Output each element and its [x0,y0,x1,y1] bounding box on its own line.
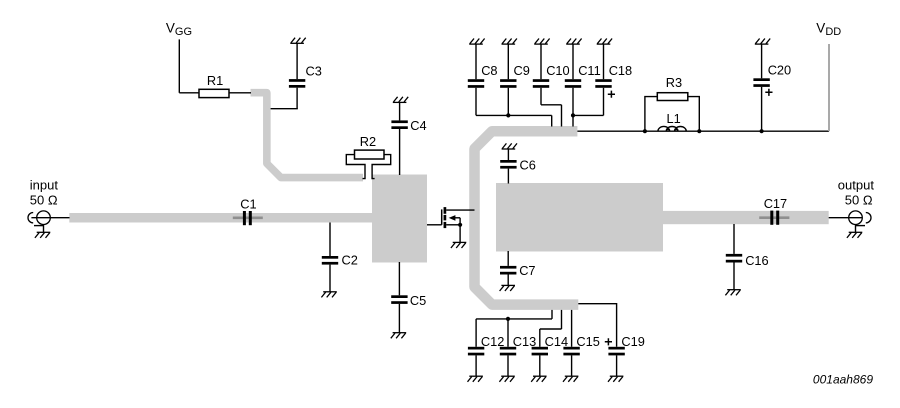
svg-text:R1: R1 [207,73,223,88]
svg-text:C17: C17 [764,196,787,211]
svg-text:001aah869: 001aah869 [813,373,873,387]
svg-text:C3: C3 [306,63,322,78]
svg-text:input: input [30,178,59,193]
svg-text:C5: C5 [410,293,426,308]
svg-text:R3: R3 [666,75,682,90]
svg-text:C16: C16 [745,253,768,268]
svg-text:C13: C13 [513,334,536,349]
svg-text:C6: C6 [520,157,536,172]
svg-text:R2: R2 [360,134,376,149]
svg-text:C10: C10 [546,63,569,78]
svg-text:C14: C14 [545,334,568,349]
svg-text:C2: C2 [342,252,358,267]
svg-text:L1: L1 [667,111,681,126]
svg-text:C11: C11 [578,63,601,78]
svg-text:C20: C20 [768,63,791,78]
svg-text:50 Ω: 50 Ω [845,193,873,208]
svg-text:C19: C19 [621,334,644,349]
svg-text:C12: C12 [481,334,504,349]
svg-text:50 Ω: 50 Ω [30,193,58,208]
svg-text:C1: C1 [240,196,256,211]
svg-text:output: output [838,178,875,193]
svg-text:C7: C7 [519,263,535,278]
svg-text:C9: C9 [514,63,530,78]
svg-text:C4: C4 [410,118,426,133]
svg-text:C8: C8 [481,63,497,78]
svg-text:C18: C18 [609,63,632,78]
svg-text:C15: C15 [576,334,599,349]
